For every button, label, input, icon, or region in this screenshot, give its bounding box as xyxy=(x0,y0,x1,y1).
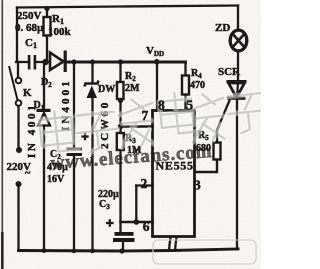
capacitor C3 xyxy=(113,232,135,242)
wire R2 top xyxy=(119,62,121,82)
resistor R2 xyxy=(117,82,124,99)
wire R1 top xyxy=(46,9,48,18)
wire vdd rail D2 to R4 corner xyxy=(67,61,186,64)
resistor R3 xyxy=(117,133,124,150)
scan border left edge xyxy=(2,0,4,232)
wire 220V lower terminal to bottom rail xyxy=(17,187,19,251)
wire pin 1 to ground double stroke xyxy=(169,238,171,251)
wire left vertical xyxy=(16,8,18,63)
wire D1 bottom xyxy=(43,126,45,251)
wire R3 to C3 xyxy=(119,150,121,232)
wire R2 to R3 xyxy=(119,99,121,133)
resistor R4 xyxy=(182,76,189,95)
wire C3 bottom xyxy=(122,242,124,251)
diode D2 xyxy=(50,51,67,73)
wire R4 to pin 5 xyxy=(184,95,186,111)
wire top rail xyxy=(17,6,238,8)
wire SCR to bottom rail xyxy=(236,100,238,250)
wire K switch stub xyxy=(17,62,19,78)
wire pin 8 xyxy=(156,62,158,111)
wire pin 6 stub xyxy=(121,221,153,224)
resistor R5 xyxy=(214,143,221,160)
SCR xyxy=(227,80,247,100)
diode D1 xyxy=(37,109,51,126)
wire R1 bottom xyxy=(46,36,48,63)
wire D1 top xyxy=(43,62,45,110)
wire SCR gate diagonal xyxy=(217,98,231,130)
wire C2 top xyxy=(73,62,75,147)
IC U1 NE555 box xyxy=(153,111,195,237)
wire R4 top xyxy=(184,62,186,76)
wire R5 to gate corner xyxy=(216,130,218,143)
wire DW top xyxy=(91,62,93,82)
wire pin 2 stub xyxy=(136,184,152,186)
wire C2 bottom xyxy=(73,156,75,251)
wire pin2 to pin6 link xyxy=(135,186,137,223)
C3 polarity plus xyxy=(106,219,114,227)
capacitor C2 xyxy=(67,148,83,157)
wire ZD to SCR xyxy=(237,53,239,81)
zener DW xyxy=(85,81,99,99)
wire vdd rail segment left of C1 xyxy=(16,61,29,63)
wire pin 7 stub xyxy=(121,125,153,128)
resistor R1 xyxy=(44,17,51,36)
wire vdd rail C1 to D2 xyxy=(36,61,51,63)
wire DW bottom xyxy=(91,98,93,251)
220V source terminals xyxy=(16,147,23,187)
wire pin 3 stub xyxy=(195,160,218,173)
capacitor C1 xyxy=(28,55,36,70)
wire bottom rail xyxy=(19,249,239,251)
switch K xyxy=(9,66,21,106)
lamp ZD xyxy=(230,30,247,51)
C2 polarity plus xyxy=(81,133,88,140)
wire K to 220V upper terminal xyxy=(17,106,19,147)
wire ZD top xyxy=(237,6,239,31)
